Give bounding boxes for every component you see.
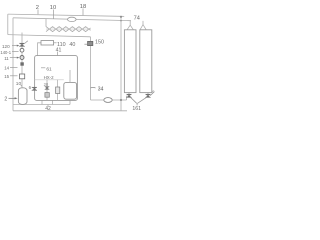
wire inner top line — [13, 18, 131, 21]
pump ellipse on bottom line — [104, 98, 112, 103]
wire branch tail at valve V1 — [25, 41, 28, 44]
leader line label 140-1 — [12, 51, 19, 53]
wire coil left feed stub — [45, 19, 47, 27]
valve on inner pipe x47 — [45, 87, 49, 90]
valve V3 on stack — [20, 56, 24, 60]
svg-text:161: 161 — [132, 106, 141, 112]
leader line label 120 — [12, 45, 17, 47]
wire stub compressor to suction line — [69, 100, 71, 104]
svg-text:150: 150 — [95, 40, 104, 46]
svg-text:140-1: 140-1 — [0, 50, 11, 55]
junction dot top right — [120, 16, 122, 18]
valve under column 2 — [145, 93, 150, 98]
leader line label 15 — [10, 75, 18, 77]
svg-text:14: 14 — [4, 66, 9, 71]
adsorption column 1 — [124, 30, 136, 93]
valve 150 on middle riser — [84, 41, 92, 45]
svg-text:2: 2 — [4, 97, 7, 103]
svg-text:120: 120 — [2, 44, 10, 49]
arrowhead leader 11 — [17, 57, 20, 59]
svg-text:42: 42 — [45, 106, 51, 112]
svg-text:2: 2 — [36, 5, 39, 11]
svg-text:HX-2: HX-2 — [44, 75, 55, 80]
heat exchanger coil (X lattice) — [46, 27, 91, 32]
svg-text:34: 34 — [98, 86, 104, 92]
wire valve2 side branch — [150, 92, 153, 95]
leader line label 14 — [10, 67, 18, 69]
svg-text:18: 18 — [80, 4, 86, 10]
leader line label 11 — [10, 57, 17, 59]
valve stack pipe — [21, 33, 23, 89]
wire column1 feed stub — [129, 20, 131, 25]
svg-text:61: 61 — [46, 66, 52, 72]
leader line label 10 top — [53, 10, 55, 19]
leader line label 42 — [47, 105, 49, 106]
leader line label 10 accumulator — [21, 85, 22, 87]
junction dot inner line right — [120, 20, 122, 22]
wire outer left vertical — [7, 14, 9, 34]
accumulator tank — [18, 88, 27, 105]
wire outer top line — [8, 14, 121, 16]
wire pipe inside enclosure x47 — [46, 80, 48, 101]
arrowhead leader 120 — [17, 45, 20, 47]
wire stub up to valve under column 1 — [126, 96, 128, 100]
wire inner left vertical — [12, 18, 14, 111]
wire V merge diagonals — [131, 97, 147, 105]
expansion device rectangle 110 — [41, 41, 54, 45]
wire inside enclosure shelf — [35, 79, 64, 81]
junction dot bottom right — [120, 99, 122, 101]
block on inner pipe x57 — [56, 87, 60, 94]
leader line label 2 top — [10, 9, 83, 107]
wire stub right of junction — [121, 15, 124, 17]
valve under column 1 — [126, 93, 131, 98]
wire compressor discharge stub — [69, 70, 71, 82]
sensor leader squiggle on riser — [91, 86, 96, 89]
solenoid block on inner pipe x47 — [45, 93, 49, 98]
leader line label 110 — [54, 42, 57, 44]
valve on left pipe x34 — [32, 87, 37, 90]
leader line label 41 — [57, 52, 59, 55]
wire tick x42 — [41, 100, 43, 104]
wire column2 caret — [140, 25, 146, 30]
wire column2 feed stub — [142, 21, 144, 25]
arrow label 2 accumulator — [9, 97, 18, 99]
valve V1 on stack — [19, 43, 24, 46]
wire expansion rect left pipe — [38, 43, 41, 56]
adsorption column 2 — [140, 30, 152, 93]
wire tick x52 — [52, 100, 54, 104]
wire lower rail under coil — [8, 35, 91, 37]
element V4 on stack — [20, 62, 23, 65]
wire suction line y104 — [13, 104, 70, 106]
compressor box — [64, 82, 77, 99]
wire bottom horizontal to pump — [91, 99, 127, 101]
svg-text:11: 11 — [4, 56, 9, 61]
wire pipe inside enclosure x57 — [57, 80, 59, 101]
svg-text:10: 10 — [16, 81, 22, 87]
wire column1 caret — [127, 25, 133, 30]
svg-text:15: 15 — [4, 74, 9, 79]
labels — [0, 4, 141, 112]
svg-text:41: 41 — [56, 47, 62, 53]
leader line label 18 top — [82, 9, 84, 16]
svg-text:74: 74 — [134, 16, 140, 22]
svg-text:10: 10 — [50, 5, 56, 11]
indoor unit enclosure box — [35, 56, 78, 101]
wire bottom line — [13, 110, 127, 112]
fan F1 (ellipse on inner top line) — [68, 17, 77, 21]
wire right main vertical — [120, 16, 122, 111]
wire middle vertical riser — [90, 37, 92, 100]
svg-text:40: 40 — [69, 42, 75, 48]
valve V2 circle on stack — [20, 48, 24, 52]
leader line label 61 — [41, 67, 45, 69]
svg-text:20: 20 — [44, 82, 49, 87]
valve V5 on stack — [20, 74, 25, 79]
